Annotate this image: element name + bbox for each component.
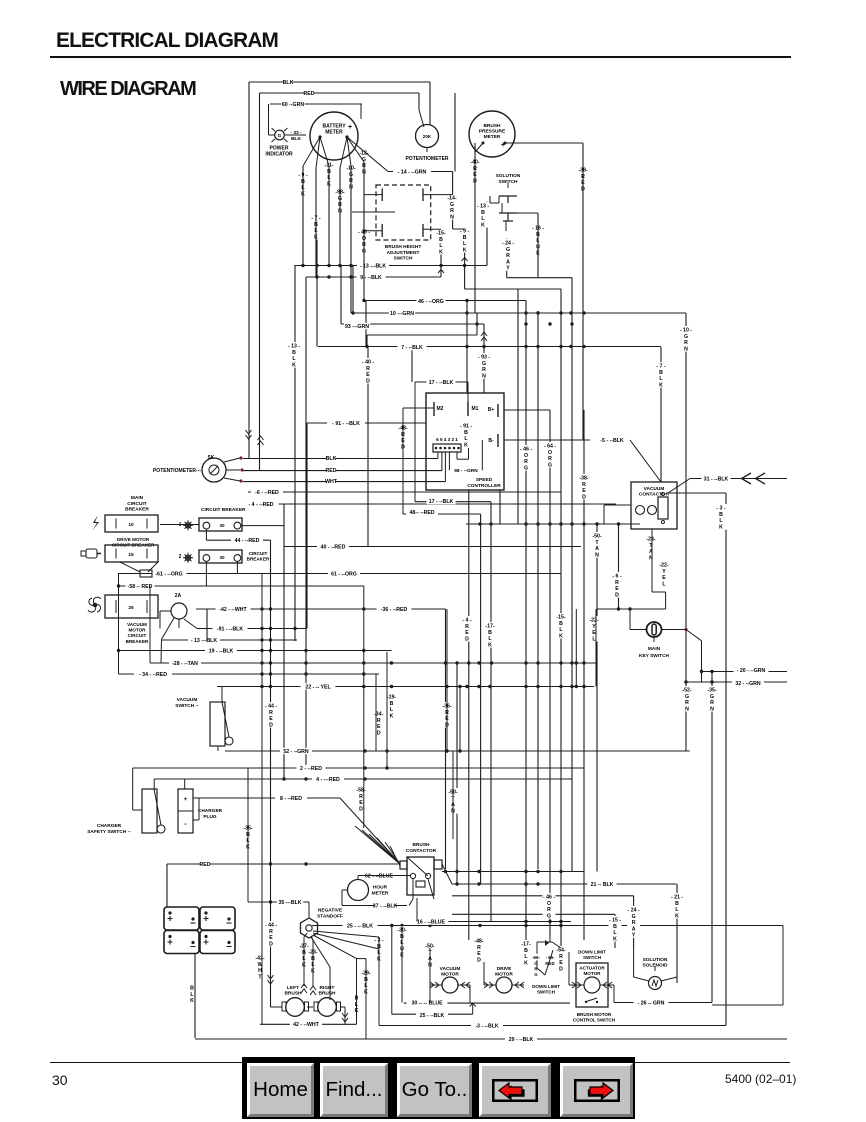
- svg-text:BREAKER: BREAKER: [247, 557, 270, 562]
- label -38- RED: [577, 166, 590, 192]
- svg-text:R: R: [477, 945, 481, 951]
- svg-text:DRIVE MOTOR: DRIVE MOTOR: [117, 537, 150, 542]
- breaker reset symbol: [120, 562, 140, 572]
- svg-text:E: E: [662, 575, 666, 581]
- chevron at 441 termination: [438, 270, 444, 274]
- svg-text:E: E: [465, 630, 469, 636]
- svg-text:30: 30: [219, 555, 225, 560]
- svg-text:B: B: [463, 235, 467, 241]
- bottom right corner wires: [782, 926, 784, 1006]
- svg-text:MOTOR: MOTOR: [128, 628, 146, 633]
- wire 7 BLK right vertical: [660, 347, 662, 482]
- svg-text:METER: METER: [372, 890, 389, 896]
- label - 64 - ORG: [544, 442, 557, 468]
- page number: [52, 1072, 68, 1088]
- svg-text:B: B: [190, 986, 194, 992]
- batteries: [164, 907, 199, 930]
- svg-text:8 - --RED: 8 - --RED: [280, 796, 302, 802]
- wire 36 RED lower vertical: [445, 609, 447, 869]
- svg-text:DOWN LIMIT: DOWN LIMIT: [578, 950, 606, 955]
- label 10 ---GRN: [389, 310, 415, 316]
- svg-text:RED: RED: [545, 961, 554, 966]
- svg-text:- 13 -: - 13 -: [288, 344, 300, 350]
- label - 7 - BLK: [655, 362, 668, 388]
- svg-text:R: R: [506, 253, 510, 259]
- wire 13 BLK vertical: [294, 265, 296, 641]
- svg-text:SWITCH: SWITCH: [537, 990, 556, 995]
- svg-text:B: B: [292, 350, 296, 356]
- svg-text:-58-: -58-: [356, 788, 365, 794]
- svg-text:A: A: [649, 549, 653, 555]
- svg-text:D: D: [366, 378, 370, 384]
- wire 4 RED tall vertical: [468, 490, 470, 940]
- label -17- BLK: [484, 622, 497, 648]
- label -58 -- RED: [125, 583, 154, 589]
- label 35 ---BLK: [277, 899, 303, 905]
- svg-text:PRESSURE: PRESSURE: [479, 129, 506, 135]
- wire 21 BLK vertical: [676, 884, 678, 983]
- wire 17 BLK vertical: [490, 502, 492, 922]
- svg-text:- 65-: - 65-: [545, 955, 555, 960]
- svg-text:K: K: [559, 633, 563, 639]
- wire 13 BLK switch vertical: [486, 202, 488, 266]
- svg-text:N: N: [710, 706, 714, 712]
- svg-text:SPEED: SPEED: [476, 477, 493, 483]
- label - 13 - BLK: [477, 202, 490, 228]
- label B LK: [186, 984, 199, 1003]
- svg-text:98 - --GRN: 98 - --GRN: [454, 468, 478, 474]
- svg-text:A: A: [506, 259, 510, 265]
- chevron at 463 termination: [462, 258, 468, 262]
- button Home: [247, 1063, 314, 1117]
- contactor fan wires: [355, 826, 400, 864]
- wire 42 WHT 36 RED bus: [196, 608, 446, 610]
- svg-text:O: O: [534, 961, 538, 966]
- svg-text:- 13 -: - 13 -: [477, 204, 489, 210]
- speed controller labels: [453, 467, 480, 473]
- wire 25 BLK lower: [392, 1013, 473, 1015]
- svg-text:19 - --BLK: 19 - --BLK: [209, 648, 234, 654]
- 5K potentiometer: [202, 458, 226, 482]
- label - 16 - BLUE: [532, 224, 545, 256]
- svg-text:ACTUATOR: ACTUATOR: [579, 966, 605, 971]
- svg-text:E: E: [377, 724, 381, 730]
- svg-text:-42 - --WHT: -42 - --WHT: [219, 607, 247, 613]
- wire 14 GRN inner vertical: [452, 195, 454, 229]
- wire 24 GRAY lower vertical: [633, 896, 635, 947]
- contactor lower wires: [412, 879, 414, 899]
- wire 2 RED bus: [133, 767, 584, 769]
- label - 44 - RED: [265, 702, 278, 728]
- svg-text:N: N: [685, 706, 689, 712]
- wire 2 RED charger drop: [132, 768, 134, 810]
- svg-text:B: B: [659, 370, 663, 376]
- wire 8 RED fan diagonal: [340, 798, 400, 864]
- wire mid vertical: [459, 687, 461, 752]
- lightning icon: [92, 515, 99, 531]
- wire 38 RED from meter: [505, 142, 583, 144]
- svg-text:O: O: [524, 453, 528, 459]
- svg-text:B: B: [719, 512, 723, 518]
- svg-text:-5 - --BLK: -5 - --BLK: [600, 438, 624, 444]
- svg-text:R: R: [710, 700, 714, 706]
- svg-text:R: R: [582, 482, 586, 488]
- wire junction bus: [466, 523, 640, 525]
- svg-text:6 5 4 3 2 1: 6 5 4 3 2 1: [436, 437, 458, 442]
- svg-text:E: E: [615, 586, 619, 592]
- label -10- GRN: [345, 164, 358, 190]
- label - 4 - --RED: [244, 501, 279, 507]
- svg-text:G: G: [534, 972, 538, 977]
- label 37 - --BLK: [369, 902, 401, 908]
- label 25 - -- BLK: [343, 922, 378, 928]
- wire 7 BLK bus: [318, 346, 661, 348]
- label 17 - --BLK: [426, 498, 455, 504]
- svg-text:BRUSH: BRUSH: [483, 123, 501, 129]
- wire 35 BLK: [248, 901, 309, 903]
- wires CB2: [205, 562, 207, 586]
- wire 29 BLK vertical 366: [365, 959, 367, 1039]
- label 62 - --BLUE: [362, 872, 397, 878]
- wire 9 BLK bus: [306, 276, 441, 278]
- svg-text:- 64 -: - 64 -: [544, 444, 556, 450]
- label - 91 - BLK: [460, 422, 473, 448]
- actuator wires: [569, 984, 584, 986]
- wire 27 23 BLK: [303, 937, 305, 986]
- svg-text:-28-: -28-: [646, 537, 655, 543]
- wire short vertical: [365, 301, 367, 347]
- svg-text:G: G: [684, 334, 688, 340]
- svg-text:25 - -- BLK: 25 - -- BLK: [347, 923, 373, 929]
- wire 8 RED bus: [193, 797, 340, 799]
- svg-text:SWITCH --: SWITCH --: [175, 703, 199, 709]
- wire short vertical: [352, 265, 354, 313]
- label 32 - --GRN: [732, 680, 764, 686]
- wire 15 BLK feed row: [452, 913, 615, 915]
- label 19 - --BLK: [205, 647, 237, 653]
- label -36 - --RED: [377, 606, 412, 612]
- svg-text:R: R: [559, 954, 563, 960]
- label -22- YEL: [588, 616, 601, 642]
- svg-text:G: G: [548, 462, 552, 468]
- svg-text:-15-: -15-: [556, 615, 565, 621]
- label BLK: [284, 79, 293, 85]
- wire 25 BLK bus: [317, 925, 783, 927]
- wire 58 RED bus: [118, 585, 364, 587]
- wire 24 GRAY feed row: [452, 895, 634, 897]
- svg-text:D: D: [582, 494, 586, 500]
- wire 609 right segment: [597, 608, 666, 610]
- wire 36 RED mid vertical: [446, 609, 448, 751]
- svg-text:B: B: [488, 630, 492, 636]
- label 22 - -- YEL: [301, 683, 336, 689]
- svg-text:+: +: [184, 797, 188, 803]
- svg-text:+: +: [348, 124, 352, 131]
- wire 16 BLUE row: [417, 921, 571, 923]
- wire 50 TAN vertical: [596, 524, 598, 872]
- svg-text:-38-: -38-: [579, 476, 588, 482]
- svg-text:-50-: -50-: [592, 534, 601, 540]
- svg-text:BRUSH: BRUSH: [318, 991, 336, 997]
- label - 14 - --GRN: [393, 168, 431, 174]
- label - 93 - GRN: [478, 353, 491, 379]
- svg-text:NEGATIVE: NEGATIVE: [318, 908, 343, 914]
- svg-text:B: B: [481, 210, 485, 216]
- wire 3 BLK right frame vertical: [725, 493, 727, 1026]
- svg-text:G: G: [450, 202, 454, 208]
- wire 24 GRAY jog: [507, 277, 572, 279]
- battery meter: [310, 112, 358, 160]
- label -42 - --WHT: [216, 606, 251, 612]
- svg-text:42 - --WHT: 42 - --WHT: [293, 1022, 319, 1028]
- label - 46 - ORG: [520, 445, 533, 471]
- svg-text:METER: METER: [484, 134, 501, 140]
- battery meter fan wires: [303, 137, 320, 166]
- svg-text:R: R: [632, 920, 636, 926]
- svg-text:POTENTIOMETER---: POTENTIOMETER---: [153, 468, 201, 474]
- label 17 - --BLK: [426, 379, 455, 385]
- svg-text:G: G: [547, 913, 551, 919]
- wire 13 BLK bus: [295, 265, 487, 267]
- wire 26 GRN right vertical: [711, 672, 713, 1003]
- down limit switch center: [537, 941, 552, 943]
- svg-text:R: R: [684, 340, 688, 346]
- wire 40 RED vertical: [367, 347, 369, 547]
- wire 40 RED bus: [284, 546, 581, 548]
- speed controller wires: [414, 382, 416, 502]
- svg-text:62 - --BLUE: 62 - --BLUE: [365, 873, 393, 879]
- subtitle WIRE DIAGRAM: [60, 78, 195, 101]
- svg-text:-36 - --RED: -36 - --RED: [381, 607, 408, 613]
- wire 46 ORG long vertical: [525, 301, 527, 949]
- svg-text:Y: Y: [662, 569, 666, 575]
- svg-text:-52-: -52-: [682, 688, 691, 694]
- svg-text:MAIN: MAIN: [648, 646, 661, 652]
- svg-text:BLK: BLK: [291, 136, 301, 142]
- junction dots: [301, 264, 304, 267]
- svg-text:MAIN: MAIN: [131, 495, 144, 501]
- svg-text:B: B: [464, 430, 468, 436]
- label 8 - --RED: [275, 795, 307, 801]
- svg-text:- 4 -: - 4 -: [462, 618, 471, 624]
- wire 35 BLK vertical: [305, 277, 307, 768]
- label 42 - --WHT: [290, 1021, 322, 1027]
- label 16 - --BLUE: [414, 918, 449, 924]
- svg-text:E: E: [477, 951, 481, 957]
- svg-text:HOUR: HOUR: [373, 885, 388, 891]
- svg-text:CONTROL SWITCH: CONTROL SWITCH: [573, 1018, 616, 1023]
- svg-text:31 - --BLK: 31 - --BLK: [704, 476, 729, 482]
- wire lower vertical: [456, 663, 458, 884]
- label 21 -- BLK: [587, 881, 616, 887]
- wire vertical: [480, 514, 482, 884]
- svg-text:-15-: -15-: [436, 231, 445, 237]
- label -3 - --BLK: [471, 1022, 503, 1028]
- label - 13 - BLK: [288, 342, 301, 368]
- wire 93 GRN corner vertical: [340, 266, 342, 325]
- svg-text:K: K: [613, 936, 617, 942]
- svg-text:E: E: [269, 935, 273, 941]
- wire RED top: [260, 92, 420, 94]
- svg-text:2A: 2A: [175, 593, 182, 599]
- wire corner vertical: [366, 335, 368, 347]
- wire 34 RED bus: [119, 673, 380, 675]
- label RED: [305, 90, 314, 96]
- button forward arrow: [560, 1063, 633, 1117]
- wire 32 GRN: [686, 681, 787, 683]
- svg-text:CONTROLLER: CONTROLLER: [467, 483, 501, 489]
- wire vertical: [499, 490, 501, 524]
- label - 9 - BLK: [297, 171, 310, 197]
- svg-text:R: R: [547, 907, 551, 913]
- svg-text:R: R: [524, 459, 528, 465]
- button back arrow: [479, 1063, 551, 1117]
- chevrons on left verticals: [246, 430, 252, 439]
- label - 24 - GRAY: [627, 906, 640, 938]
- label 48-- --RED: [406, 509, 438, 515]
- svg-text:5K: 5K: [208, 455, 215, 461]
- wire 28 TAN bus: [150, 662, 596, 664]
- label B LK: [350, 994, 363, 1013]
- wire 21 BLK row: [452, 883, 677, 885]
- svg-text:SAFETY SWITCH --: SAFETY SWITCH --: [87, 829, 131, 835]
- button Go To: [397, 1063, 472, 1117]
- svg-text:93 ---GRN: 93 ---GRN: [345, 324, 369, 330]
- svg-text:N: N: [450, 214, 454, 220]
- svg-text:B: B: [524, 948, 528, 954]
- svg-text:16 - --BLUE: 16 - --BLUE: [417, 919, 445, 925]
- svg-text:N: N: [684, 346, 688, 352]
- wire 30 BLUE bus: [404, 1002, 570, 1004]
- label -61 - --ORG: [152, 570, 187, 576]
- svg-text:20K: 20K: [423, 134, 432, 139]
- svg-text:POTENTIOMETER: POTENTIOMETER: [405, 156, 448, 162]
- wire 91 BLK link vertical: [306, 423, 308, 629]
- label -54- RED: [555, 946, 568, 972]
- svg-text:A: A: [595, 546, 599, 552]
- label - 6 - RED: [611, 572, 624, 598]
- svg-text:VACUUM: VACUUM: [177, 697, 198, 703]
- svg-text:32 - --GRN: 32 - --GRN: [735, 681, 761, 687]
- label 46 - --ORG: [416, 298, 445, 304]
- wire 28 TAN left vertical: [149, 586, 151, 663]
- wire corner vertical: [476, 313, 478, 336]
- wire 31 BLK: [690, 478, 787, 480]
- wire 21 BLK diag: [442, 864, 452, 884]
- label -29- BLK: [360, 969, 373, 995]
- svg-text:KEY SWITCH: KEY SWITCH: [639, 653, 670, 659]
- svg-text:R: R: [377, 718, 381, 724]
- label - 15 - BLK: [609, 916, 622, 942]
- label RED: [201, 861, 210, 867]
- label -6 - --RED: [251, 489, 283, 495]
- wire 26 GRN bus: [614, 1002, 712, 1004]
- label - 9 - BLK: [458, 227, 471, 253]
- svg-text:RIGHT: RIGHT: [320, 985, 335, 991]
- label 29 - --BLK: [505, 1036, 537, 1042]
- svg-text:30 -- -- BLUE: 30 -- -- BLUE: [411, 1000, 443, 1006]
- label - 40 - RED: [362, 358, 375, 384]
- battery wires: [166, 864, 168, 907]
- wire 30 BLUE vertical: [401, 926, 403, 1003]
- svg-text:K: K: [488, 642, 492, 648]
- label RED: [327, 467, 336, 473]
- charger plug: [178, 789, 193, 833]
- standoff wires: [308, 902, 310, 918]
- svg-text:RED: RED: [326, 468, 337, 474]
- wire 31 BLK to frame: [668, 492, 726, 494]
- label -42- WHT: [254, 954, 267, 980]
- svg-text:30: 30: [219, 523, 225, 528]
- circuit breaker 2: [199, 550, 242, 563]
- label -35- BLK: [242, 824, 255, 850]
- wire 17 BLK upper: [415, 381, 468, 383]
- svg-text:Y: Y: [632, 933, 636, 939]
- wire 44 RED bus: [206, 539, 270, 541]
- svg-text:- 34 - --RED: - 34 - --RED: [139, 672, 167, 678]
- svg-text:G: G: [506, 247, 510, 253]
- wire CB1: [241, 525, 284, 527]
- svg-text:-54-: -54-: [556, 948, 565, 954]
- svg-text:MOTOR: MOTOR: [583, 971, 601, 976]
- svg-text:E: E: [269, 716, 273, 722]
- wire 5 BLK corner: [660, 477, 662, 482]
- wire 93 GRN bus: [341, 323, 484, 325]
- svg-text:BLK: BLK: [326, 456, 337, 462]
- vacuum motor wires: [430, 984, 442, 986]
- doc code: [725, 1072, 796, 1086]
- wire row 335: [367, 334, 477, 336]
- wire 14 GRN jog: [453, 228, 465, 230]
- label - 46 - ORG: [543, 893, 556, 919]
- svg-text:- 6 -: - 6 -: [612, 574, 621, 580]
- main key switch: [647, 622, 662, 637]
- wire WHT pot bus: [243, 481, 445, 483]
- svg-text:RED: RED: [200, 862, 211, 868]
- title ELECTRICAL DIAGRAM: [56, 29, 278, 53]
- svg-text:17 - --BLK: 17 - --BLK: [429, 380, 454, 386]
- wire 22 YEL bus: [217, 686, 594, 688]
- svg-text:44 - --RED: 44 - --RED: [235, 538, 260, 544]
- svg-text:D: D: [465, 636, 469, 642]
- wire 60 GRN to meter: [360, 104, 362, 119]
- hour meter wires: [358, 875, 410, 877]
- wire 42 WHT bottom row: [260, 1023, 357, 1025]
- svg-text:R: R: [615, 580, 619, 586]
- svg-text:-17-: -17-: [521, 942, 530, 948]
- svg-text:-: -: [184, 821, 187, 828]
- label -15- BLK: [555, 613, 568, 639]
- svg-text:R: R: [269, 929, 273, 935]
- svg-text:O: O: [547, 901, 551, 907]
- svg-text:SOLUTION: SOLUTION: [496, 173, 521, 179]
- svg-text:- 40 -: - 40 -: [362, 360, 374, 366]
- svg-text:K: K: [292, 362, 296, 368]
- svg-text:- 13 ---BLK: - 13 ---BLK: [191, 638, 217, 644]
- svg-text:G: G: [632, 914, 636, 920]
- svg-text:-22-: -22-: [659, 563, 668, 569]
- wire 19 BLK bus: [119, 650, 392, 652]
- power indicator: [275, 130, 285, 140]
- svg-text:R: R: [359, 794, 363, 800]
- svg-text:K: K: [439, 249, 443, 255]
- label -36- RED: [441, 702, 454, 728]
- wire M2 feed: [403, 407, 434, 409]
- wire 16 BLUE vertical: [537, 311, 539, 869]
- fan icon: [88, 597, 101, 612]
- wire vertical 576: [575, 609, 577, 687]
- wire 4 RED lower bus: [154, 778, 572, 780]
